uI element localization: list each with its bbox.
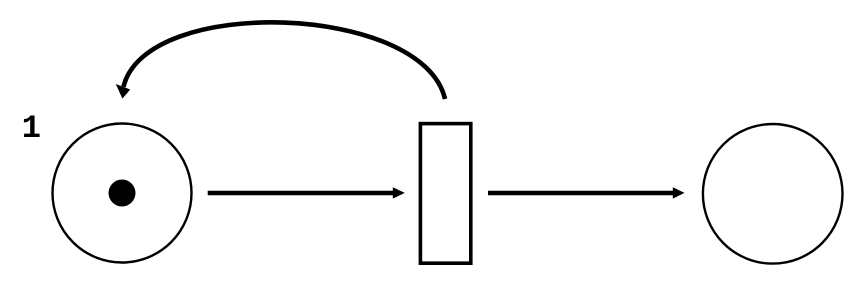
place P2 (right circle) xyxy=(703,124,843,264)
arc T1 to P2 (wire) xyxy=(488,191,674,196)
arrowhead P1 to T1 xyxy=(393,187,405,198)
svg-text:1: 1 xyxy=(22,110,41,147)
token in P1 xyxy=(109,180,136,207)
place P1 (marked place, left circle) xyxy=(53,124,192,263)
arc P1 to T1 (wire) xyxy=(208,191,394,196)
arc T1 back to P1 (curved wire over the top) xyxy=(124,22,446,99)
arrowhead T1 to P1 xyxy=(116,84,130,99)
transition T1 (rectangle) xyxy=(420,124,470,264)
arrowhead T1 to P2 xyxy=(673,187,685,198)
